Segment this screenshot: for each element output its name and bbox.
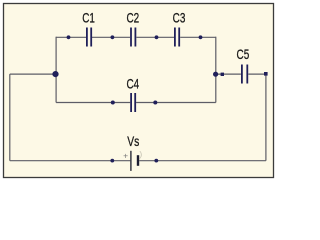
svg-text:Vs: Vs <box>127 133 139 149</box>
svg-text:C3: C3 <box>173 10 186 26</box>
svg-text:C2: C2 <box>126 10 139 26</box>
svg-text:): ) <box>139 149 142 159</box>
svg-text:C1: C1 <box>82 10 95 26</box>
svg-text:C5: C5 <box>237 46 250 62</box>
svg-text:+: + <box>123 151 128 161</box>
svg-text:C4: C4 <box>126 76 139 92</box>
